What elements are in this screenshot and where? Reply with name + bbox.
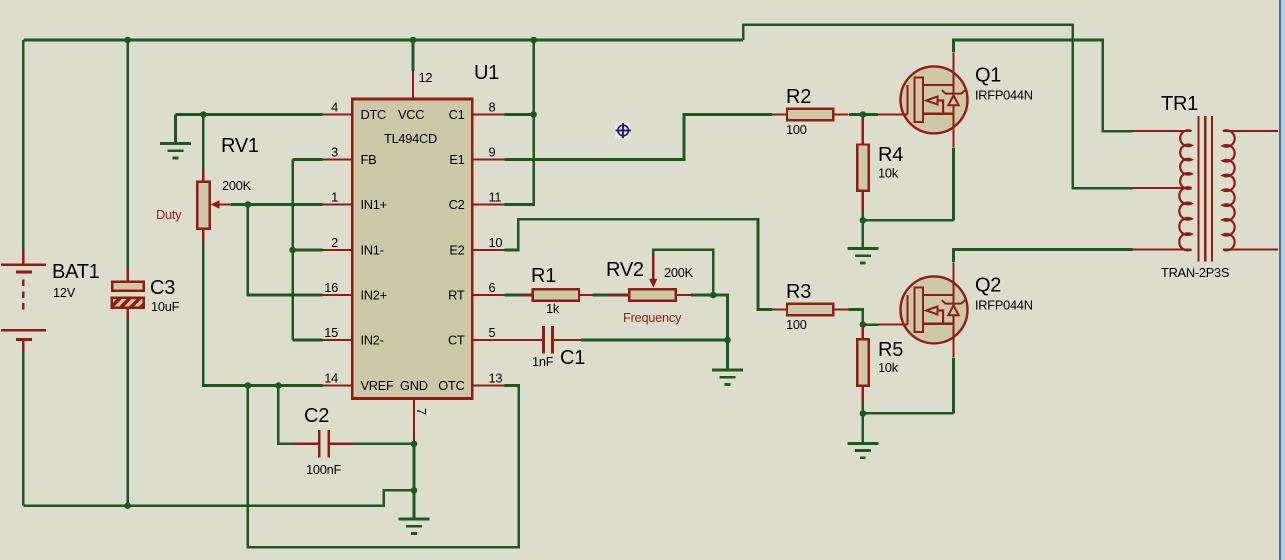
wire battery positive to top rail [22, 40, 25, 248]
Q2 substrate link [938, 311, 944, 324]
wire pin 8 to collector bus [504, 113, 533, 116]
wire RV2 right lead to node [691, 294, 713, 297]
R3 right lead [833, 308, 848, 310]
RV1 bottom lead [202, 229, 204, 243]
wire top rail step to TR1 center tap [743, 25, 1132, 189]
svg-text:VREF: VREF [361, 378, 395, 393]
junction collector bus on +12V rail [530, 37, 537, 44]
svg-text:U1: U1 [474, 62, 499, 84]
R2 left lead [772, 113, 787, 115]
R5 top lead [862, 325, 864, 340]
wire Q2 source row [863, 412, 954, 415]
svg-text:200K: 200K [222, 178, 252, 193]
Q2 body diode triangle [948, 305, 958, 315]
pin stub 14 (VREF) [323, 384, 353, 386]
svg-text:C1: C1 [449, 107, 465, 122]
wire Q1 drain to TR1 primary top [954, 40, 1133, 131]
svg-text:4: 4 [331, 100, 338, 115]
C1 right lead [553, 339, 582, 341]
C3 bottom lead [126, 308, 128, 320]
RV1 top lead [202, 167, 204, 182]
junction VCC on +12V rail [410, 37, 417, 44]
R4 body [857, 145, 868, 191]
svg-text:14: 14 [324, 371, 338, 386]
resistor R1 [518, 265, 594, 316]
svg-text:1nF: 1nF [532, 354, 554, 369]
ground at C1/RV2 node [712, 370, 743, 384]
svg-text:RT: RT [448, 288, 465, 303]
pin stub 1 (IN1+) [323, 203, 353, 205]
R2 body [787, 109, 833, 120]
wire E1 to R2 [504, 115, 772, 160]
potentiometer RV1 [156, 135, 259, 243]
svg-text:2: 2 [331, 235, 338, 250]
TR1 primary center tap lead [1133, 187, 1192, 189]
wire IN2- row [293, 339, 323, 342]
wire RV2 node jog down [713, 295, 727, 340]
RV2 left lead [608, 294, 630, 296]
R4 bottom lead [862, 191, 864, 212]
svg-text:10k: 10k [878, 166, 899, 181]
wire Q2 drain to TR1 primary bottom [954, 250, 1133, 263]
RV1 wiper arrow [211, 200, 220, 208]
junction GND pin / C2 [411, 441, 418, 448]
junction FB bus at IN1- [289, 247, 296, 254]
svg-text:6: 6 [489, 280, 496, 295]
battery cell 2 long plate [1, 329, 46, 332]
svg-text:1: 1 [331, 190, 338, 205]
C3 top lead [126, 268, 128, 282]
Q1 drain-source line [952, 66, 954, 133]
TR1 secondary top lead [1223, 130, 1278, 132]
junction VREF row / C2 [275, 382, 282, 389]
C1 left plate [542, 326, 545, 354]
svg-text:FB: FB [361, 152, 377, 167]
TR1 primary winding 1 [1180, 130, 1191, 189]
svg-text:16: 16 [324, 280, 338, 295]
Q1 drain stub [952, 52, 954, 66]
RV2 wiper lead [652, 254, 654, 280]
svg-text:IN2+: IN2+ [361, 288, 387, 303]
svg-text:IN1+: IN1+ [361, 197, 387, 212]
R5 bottom lead [862, 386, 864, 403]
wire R1 to RV2 [593, 294, 631, 297]
wire RV2 wiper loop [653, 250, 713, 295]
svg-text:100nF: 100nF [306, 462, 341, 477]
RV2 body [629, 289, 676, 300]
svg-text:BAT1: BAT1 [52, 261, 100, 283]
capacitor C2 [293, 405, 353, 477]
svg-text:IN1-: IN1- [361, 243, 384, 258]
svg-text:Q1: Q1 [975, 64, 1001, 86]
wire IN1+ to IN2+ bus [248, 205, 323, 296]
svg-text:12: 12 [419, 70, 433, 85]
R2 right lead [833, 113, 848, 115]
svg-text:15: 15 [324, 325, 338, 340]
svg-text:VCC: VCC [398, 107, 424, 122]
transformer TR1 [1133, 93, 1279, 280]
svg-text:7: 7 [414, 408, 429, 415]
R3 body [787, 304, 833, 315]
svg-text:3: 3 [331, 145, 338, 160]
C2 left plate [318, 430, 321, 458]
TR1 primary top lead [1133, 130, 1192, 132]
Q1 source stub [952, 133, 954, 147]
TR1 secondary bottom lead [1223, 248, 1278, 250]
junction VREF row / OTC rail [245, 382, 252, 389]
battery BAT1 [1, 248, 100, 353]
Q1 body diode triangle [948, 95, 958, 105]
pin stub 9 (E1) [472, 158, 504, 160]
C3 top plate [112, 282, 144, 291]
R3 left lead [772, 308, 787, 310]
svg-text:R1: R1 [531, 265, 556, 287]
R5 body [857, 339, 868, 385]
junction wiper node [245, 201, 252, 208]
svg-text:200K: 200K [664, 265, 694, 280]
wire RT row to R1 [504, 294, 534, 297]
pin stub 8 (C1) [472, 113, 504, 115]
svg-text:100: 100 [786, 317, 807, 332]
svg-text:Frequency: Frequency [623, 310, 682, 325]
svg-text:GND: GND [400, 378, 428, 393]
Q1 substrate link [938, 101, 944, 114]
TR1 core line 3 [1211, 116, 1213, 262]
svg-text:R3: R3 [786, 281, 811, 303]
wire R2 to Q1 gate [849, 113, 878, 116]
junction R2/R4/Q1 gate [860, 111, 867, 118]
Q1 source link [923, 113, 953, 115]
svg-text:Duty: Duty [156, 207, 182, 222]
svg-text:E2: E2 [449, 243, 464, 258]
pin stub 6 (RT) [472, 294, 504, 296]
RV1 wiper lead [217, 203, 231, 205]
pin stub 13 (OTC) [472, 384, 504, 386]
Q1 drain link [923, 84, 953, 86]
svg-text:E1: E1 [449, 152, 464, 167]
resistor R4 [857, 119, 903, 212]
svg-text:100: 100 [786, 122, 807, 137]
wire C1 right to ground node [581, 339, 728, 342]
junction C1/ground node [724, 337, 731, 344]
junction C3 top on +12V rail [124, 37, 131, 44]
wire ground stem at DTC [174, 115, 177, 144]
potentiometer RV2 [606, 254, 694, 325]
ground at DTC [160, 144, 191, 158]
ground at IC GND pin [399, 519, 430, 533]
wire R3 jog to Q2 gate [849, 310, 863, 325]
R1 right lead [579, 294, 594, 296]
Q1 body diode cathode [942, 90, 965, 93]
wire E2 run to R3 [504, 219, 772, 309]
R1 body [533, 289, 579, 300]
svg-text:5: 5 [489, 325, 496, 340]
wire +12V top rail [23, 39, 743, 42]
TR1 secondary winding [1223, 130, 1235, 250]
Q2 body circle [901, 276, 968, 343]
transistor Q2 IRFP044N [878, 262, 1033, 357]
TR1 core line 1 [1197, 116, 1199, 262]
wire C2 branch down [278, 386, 293, 444]
pin stub 3 (FB) [323, 158, 353, 160]
wire VREF to OTC rail [248, 386, 519, 548]
svg-text:12V: 12V [53, 285, 76, 300]
junction C3 on ground rail [124, 502, 131, 509]
Q2 body diode cathode [942, 300, 965, 303]
svg-text:OTC: OTC [438, 378, 464, 393]
Q1 substrate arrow [926, 97, 937, 105]
battery bottom lead [22, 339, 24, 352]
svg-text:DTC: DTC [361, 107, 387, 122]
svg-text:11: 11 [489, 190, 502, 205]
wire DTC row with ground tap [176, 113, 323, 116]
svg-text:R4: R4 [878, 144, 903, 166]
junction Q1 source node [860, 217, 867, 224]
svg-text:IRFP044N: IRFP044N [975, 297, 1033, 312]
RV2 wiper arrow [649, 279, 657, 288]
wire R4 bottom to source node [862, 205, 865, 221]
pin stub 15 (IN2-) [323, 339, 353, 341]
svg-text:IN2-: IN2- [361, 333, 384, 348]
wire RV1 wiper to IN1+ [231, 203, 323, 206]
capacitor C3 [112, 268, 180, 320]
Q2 gate lead [878, 323, 908, 325]
pin stub 10 (E2) [472, 249, 504, 251]
junction RV1 top on DTC row [200, 111, 207, 118]
window edge strip [1280, 0, 1285, 560]
battery dashed body [22, 280, 25, 312]
resistor R3 [772, 281, 848, 332]
Q2 channel bar [914, 288, 923, 332]
resistor R2 [772, 86, 848, 137]
capacitor C1 [504, 326, 585, 369]
svg-text:R2: R2 [786, 86, 811, 108]
wire battery negative to ground rail [22, 348, 25, 506]
origin marker [615, 123, 631, 139]
pin stub 12 (VCC) [412, 71, 414, 99]
Q2 source stub [952, 343, 954, 357]
R1 left lead [518, 294, 533, 296]
C1 right plate [551, 326, 554, 354]
pin stub 4 (DTC) [323, 113, 353, 115]
svg-text:10uF: 10uF [151, 299, 180, 314]
svg-text:TR1: TR1 [1161, 93, 1198, 115]
svg-text:RV2: RV2 [606, 259, 644, 281]
battery cell 1 long plate [1, 263, 46, 266]
junction RV2 right/wiper [710, 292, 717, 299]
C3 bottom plate hatched [112, 298, 144, 308]
junction Q2 source node [860, 410, 867, 417]
wire FB bus [291, 160, 294, 341]
wire R5 bottom to source node [862, 398, 865, 413]
svg-text:RV1: RV1 [221, 135, 259, 157]
pin stub 5 (CT) [472, 339, 504, 341]
Q1 gate lead [878, 113, 908, 115]
junction R3/R5/Q2 gate [860, 321, 867, 328]
svg-text:Q2: Q2 [975, 274, 1001, 296]
svg-text:8: 8 [489, 100, 496, 115]
svg-text:C2: C2 [449, 197, 465, 212]
C2 left lead [293, 443, 319, 445]
ground at Q1 source [847, 249, 878, 263]
R4 top lead [862, 119, 864, 145]
battery top lead [22, 248, 24, 265]
wire Q1 source node to ground [862, 220, 865, 248]
wire IN1- row [293, 249, 323, 252]
pin stub 16 (IN2+) [323, 294, 353, 296]
RV1 body [197, 182, 210, 229]
transistor Q1 IRFP044N [878, 52, 1033, 147]
battery cell 1 short plate [16, 270, 32, 273]
Q2 drain link [923, 294, 953, 296]
Q2 gate electrode [906, 295, 908, 324]
C2 right lead [329, 443, 353, 445]
wire RV1 top lead [202, 115, 205, 168]
Q2 drain-source line [952, 276, 954, 343]
wire Q2 source node to ground [862, 413, 865, 443]
wire RV1 bottom to VREF row [203, 243, 322, 386]
TR1 primary winding 2 [1179, 187, 1191, 250]
svg-text:13: 13 [489, 371, 503, 386]
battery cell 2 short plate [16, 338, 32, 341]
C1 left lead [504, 339, 543, 341]
pin stub 11 (C2) [472, 203, 504, 205]
pin stub 2 (IN1-) [323, 249, 353, 251]
wire ground stem at RV2 node [726, 340, 729, 370]
TR1 primary bottom lead [1133, 248, 1192, 250]
Q1 gate electrode [906, 85, 908, 114]
RV2 right lead [676, 294, 691, 296]
svg-text:CT: CT [448, 333, 465, 348]
svg-text:10: 10 [489, 235, 503, 250]
wire collector bus C1/C2 [504, 40, 533, 205]
wire R4 top branch [862, 115, 865, 130]
svg-text:TRAN-2P3S: TRAN-2P3S [1161, 265, 1229, 280]
C2 right plate [327, 430, 330, 458]
svg-text:9: 9 [489, 145, 496, 160]
wire C2 right to GND node [353, 443, 414, 446]
wire FB row [293, 158, 323, 161]
Q2 substrate arrow [926, 307, 937, 315]
wire Q2 gate lead [863, 323, 878, 326]
svg-text:TL494CD: TL494CD [384, 131, 437, 146]
wire C3 bottom branch [126, 320, 129, 506]
TR1 core line 2 [1204, 116, 1206, 262]
svg-text:1k: 1k [546, 301, 560, 316]
svg-text:C1: C1 [560, 347, 585, 369]
wire GND node to ground symbol [413, 490, 416, 519]
Q1 channel bar [914, 78, 923, 122]
wire bottom ground rail [23, 490, 414, 505]
wire Q2 source drop [952, 358, 955, 413]
wire C3 top branch [126, 40, 129, 268]
ground at Q2 source [847, 443, 878, 457]
wire GND pin node [413, 441, 416, 490]
junction ground node [411, 487, 418, 494]
svg-text:C2: C2 [304, 405, 329, 427]
op-amp U1 TL494CD body [352, 99, 472, 399]
wire VCC pin 12 drop [412, 40, 415, 71]
junction pin8 on collector bus [530, 111, 537, 118]
wire Q1 source drop [952, 148, 955, 220]
svg-text:C3: C3 [150, 277, 175, 299]
IC U1 group [323, 62, 505, 441]
pin stub 7 (GND) [413, 399, 415, 442]
Q2 drain stub [952, 262, 954, 276]
Q2 source link [923, 323, 953, 325]
Q1 body circle [901, 66, 968, 133]
svg-text:R5: R5 [878, 339, 903, 361]
resistor R5 [857, 325, 903, 403]
svg-text:10k: 10k [878, 360, 899, 375]
svg-text:IRFP044N: IRFP044N [975, 87, 1033, 102]
wire Q1 source row [863, 219, 954, 222]
